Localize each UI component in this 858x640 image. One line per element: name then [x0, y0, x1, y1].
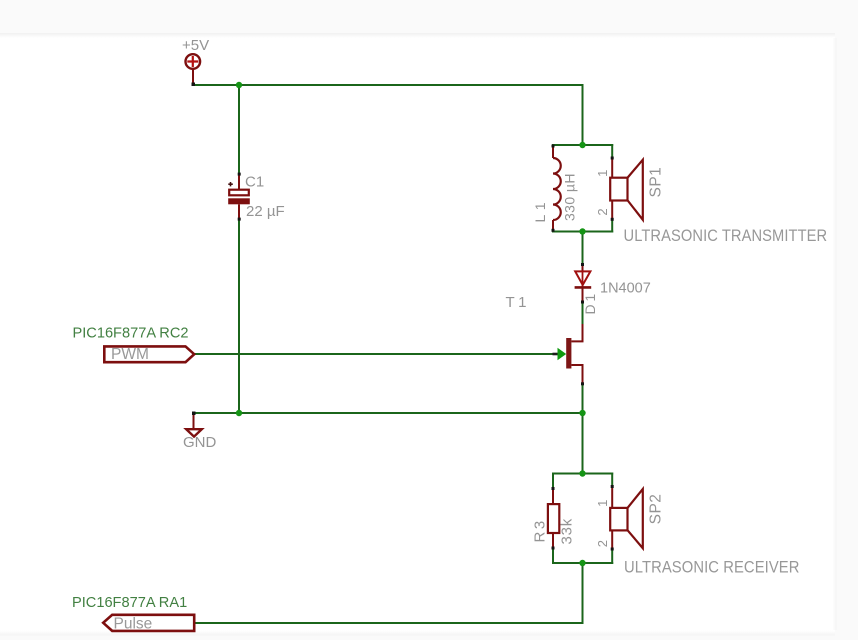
SP1 pin ticks — [611, 157, 614, 160]
svg-text:SP1: SP1 — [647, 167, 664, 198]
svg-text:T1: T1 — [506, 294, 530, 311]
svg-text:22 µF: 22 µF — [246, 203, 285, 220]
T1 collector lead — [571, 324, 582, 341]
wire GND stub down to ground symbol — [193, 414, 195, 429]
T1 emitter pin tick — [581, 382, 584, 385]
svg-text:2: 2 — [595, 208, 610, 215]
svg-text:Pulse: Pulse — [114, 616, 153, 633]
svg-text:330 µH: 330 µH — [562, 173, 578, 221]
svg-text:1: 1 — [595, 170, 610, 177]
wire from transistor emitter to GND rail — [582, 384, 584, 413]
wire from receiver block down — [582, 563, 584, 623]
svg-text:SP2: SP2 — [647, 494, 664, 525]
resistor R3 — [548, 489, 559, 549]
svg-text:1N4007: 1N4007 — [600, 280, 651, 296]
svg-text:ULTRASONIC TRANSMITTER: ULTRASONIC TRANSMITTER — [624, 227, 828, 245]
svg-text:+5V: +5V — [182, 37, 209, 54]
C1 pin ticks — [238, 173, 241, 176]
C1 polarity plus mark — [228, 182, 233, 186]
wire receiver block bottom rail — [553, 562, 612, 564]
L1 pin ticks — [552, 145, 555, 148]
svg-text:C1: C1 — [245, 174, 264, 191]
svg-text:ULTRASONIC RECEIVER: ULTRASONIC RECEIVER — [624, 559, 799, 577]
svg-text:2: 2 — [595, 540, 610, 547]
R3 pin ticks — [552, 487, 555, 490]
+5V supply symbol — [186, 54, 201, 84]
junction at +5V / C1 — [236, 82, 242, 88]
wire right drop from top rail to L1 block — [582, 85, 584, 145]
ground symbol — [186, 429, 202, 436]
junction L1 block bottom — [579, 228, 585, 234]
+5V pin connection tick — [192, 83, 196, 87]
wire C1 lower segment to GND rail — [238, 219, 240, 413]
wire from diode cathode to transistor collector — [582, 302, 584, 324]
transistor T1 — [553, 324, 585, 385]
svg-text:GND: GND — [183, 434, 217, 451]
junction receiver block bottom — [579, 560, 585, 566]
SP2 pin ticks — [611, 485, 614, 488]
wire SP1 pin1 upper green segment — [611, 145, 613, 158]
port PWM flag — [104, 346, 194, 362]
wire from L1 block to diode anode — [582, 232, 584, 265]
svg-text:33k: 33k — [559, 518, 576, 545]
svg-text:PIC16F877A RC2: PIC16F877A RC2 — [73, 325, 189, 341]
wire SP1 pin2 lower green segment — [611, 219, 613, 232]
svg-text:PIC16F877A RA1: PIC16F877A RA1 — [72, 595, 187, 611]
speaker SP1 — [610, 158, 643, 220]
wire receiver block top rail — [553, 473, 612, 475]
svg-text:1: 1 — [595, 500, 610, 507]
wire GND rail horizontal — [194, 412, 583, 414]
wire +5V rail: top horizontal from supply to right drop — [194, 84, 583, 86]
wire R3 lower green segment — [552, 549, 554, 564]
svg-text:PWM: PWM — [111, 346, 149, 363]
junction emitter / GND rail — [579, 410, 585, 416]
junction C1 / GND rail — [236, 410, 242, 416]
wire L1 block top rail — [553, 144, 612, 146]
T1 gate pin segment — [553, 353, 558, 356]
wire C1 upper segment — [238, 85, 240, 174]
GND corner tick — [192, 412, 196, 416]
wire L1 block bottom rail — [553, 231, 612, 233]
wire R3 upper green segment — [552, 474, 554, 489]
svg-text:L1: L1 — [532, 198, 548, 223]
wire Pulse net bottom horizontal — [195, 622, 583, 624]
wire SP2 pin2 lower green segment — [611, 549, 613, 563]
D1 pin ticks — [581, 263, 584, 266]
wire SP2 pin1 upper green segment — [611, 474, 613, 487]
wire PWM net from port to transistor gate — [195, 353, 554, 355]
svg-text:R3: R3 — [532, 518, 549, 542]
T1 body bar — [566, 338, 571, 369]
speaker SP2 — [610, 487, 643, 550]
inductor L1 — [553, 146, 561, 232]
junction L1 block top — [579, 142, 585, 148]
junction receiver block top — [579, 470, 585, 476]
capacitor C1 — [228, 175, 250, 219]
T1 emitter lead — [571, 365, 582, 384]
port Pulse flag — [103, 615, 194, 631]
diode D1 1N4007 — [575, 265, 592, 303]
wire from GND rail down to receiver block — [582, 413, 584, 474]
svg-text:D1: D1 — [582, 291, 598, 315]
T1 gate arrow — [558, 348, 567, 361]
